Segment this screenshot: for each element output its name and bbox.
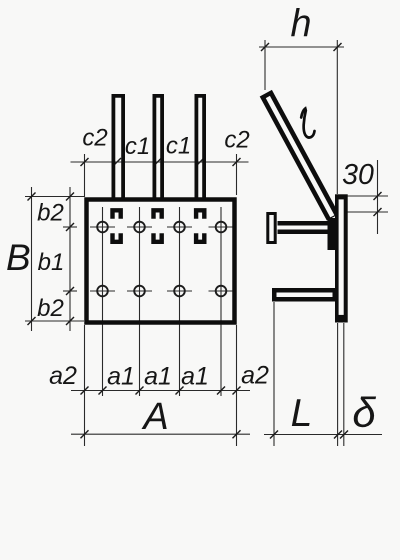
svg-text:A: A <box>141 396 168 438</box>
svg-text:h: h <box>291 3 312 46</box>
svg-text:c2: c2 <box>82 125 107 152</box>
svg-text:c2: c2 <box>224 127 249 154</box>
svg-text:b2: b2 <box>37 295 64 322</box>
svg-text:B: B <box>6 237 31 278</box>
svg-text:30: 30 <box>342 159 374 191</box>
svg-text:a2: a2 <box>241 362 269 390</box>
svg-text:a2: a2 <box>49 362 77 390</box>
svg-text:a1: a1 <box>181 363 209 391</box>
svg-text:b1: b1 <box>38 249 65 276</box>
svg-text:c1: c1 <box>125 133 150 160</box>
svg-text:δ: δ <box>352 389 376 436</box>
svg-text:a1: a1 <box>144 363 172 391</box>
svg-text:c1: c1 <box>166 133 191 160</box>
svg-text:L: L <box>291 392 313 435</box>
svg-text:a1: a1 <box>107 363 135 391</box>
svg-text:b2: b2 <box>37 200 64 227</box>
